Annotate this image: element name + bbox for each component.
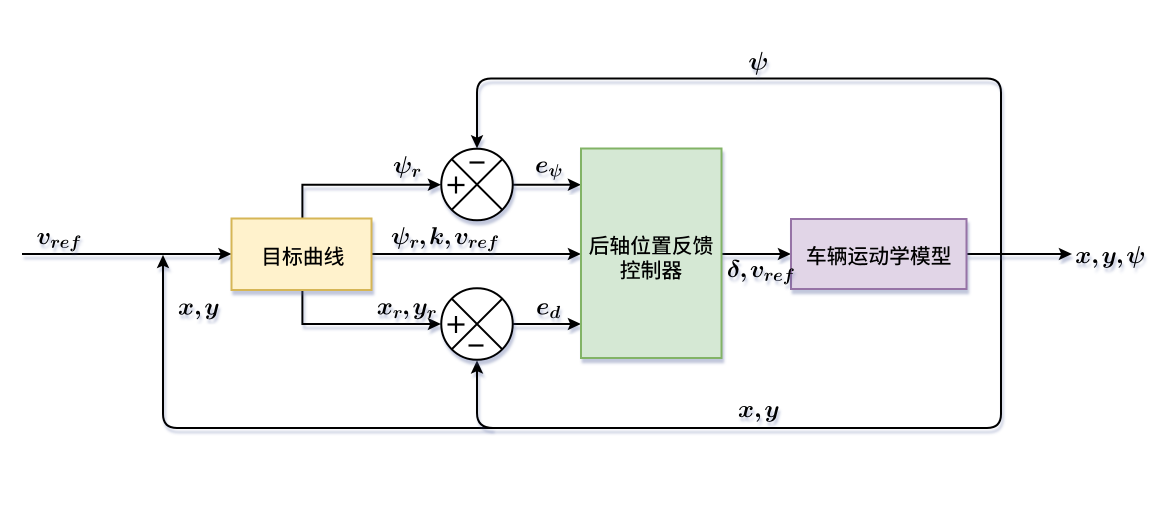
label 后轴位置反馈 [589, 236, 712, 256]
label x,y,psi out [1076, 246, 1144, 268]
block 目标曲线 (target curve) [232, 219, 372, 291]
label x,y left [179, 304, 219, 320]
wire psi feedback top loop [471, 79, 1001, 255]
wire e_d [513, 318, 581, 331]
label psi_r,k,v_ref [392, 227, 498, 251]
label x,y bottom [739, 406, 779, 422]
block 后轴位置反馈控制器 (rear-axle position feedback controller) [581, 149, 722, 359]
wire psi_r branch [302, 178, 441, 218]
label psi top [749, 52, 767, 75]
wire v_ref input [22, 248, 232, 261]
label 目标曲线 [264, 247, 343, 266]
wire delta v_ref [722, 248, 791, 261]
label e_d [537, 303, 560, 318]
label psi_r [394, 156, 421, 178]
wire x_r y_r branch [302, 290, 441, 331]
label delta,v_ref [728, 260, 794, 285]
label v_ref [37, 233, 80, 251]
wire psi_r k v_ref middle [372, 248, 581, 261]
block 车辆运动学模型 (vehicle kinematics model) [791, 219, 967, 289]
wire e_psi [513, 178, 581, 191]
wire output x,y,psi [967, 248, 1072, 261]
wire x,y feedback bottom loop [157, 254, 1001, 428]
summing junction S1 (heading error) [441, 149, 513, 221]
summing junction S2 (lateral error) [441, 288, 513, 360]
label x_r,y_r [378, 303, 436, 319]
wire x,y branch to sum S2 [471, 360, 493, 428]
label 控制器 [620, 260, 681, 279]
label 车辆运动学模型 [807, 246, 950, 266]
label e_psi [536, 162, 561, 180]
